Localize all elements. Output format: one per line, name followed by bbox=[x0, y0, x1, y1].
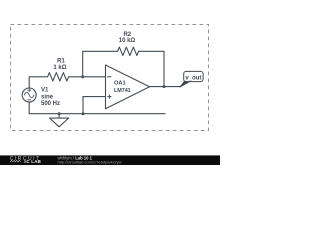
wire plus-input riser bbox=[83, 97, 106, 114]
resistor R1 bbox=[48, 73, 69, 81]
wire ground rail bbox=[29, 113, 165, 115]
svg-text:≡C LAB: ≡C LAB bbox=[24, 159, 41, 164]
junction output/feedback bbox=[163, 85, 166, 88]
op-amp plus input mark bbox=[108, 95, 111, 98]
wire feedback riser left bbox=[83, 51, 118, 77]
wire V1 top to R1 bbox=[29, 77, 47, 88]
voltage source V1 circle bbox=[22, 88, 36, 102]
V1 minus sign bbox=[28, 99, 31, 101]
node v_out flag box bbox=[184, 71, 203, 81]
V1 plus sign bbox=[28, 89, 31, 92]
svg-text:v_out: v_out bbox=[185, 75, 201, 81]
svg-text:10 kΩ: 10 kΩ bbox=[119, 38, 136, 44]
wire R2 to feedback riser right bbox=[139, 51, 164, 86]
svg-text:R1: R1 bbox=[57, 58, 65, 64]
node v_out flag pointer bbox=[180, 82, 190, 87]
footer logo squiggle bbox=[10, 160, 20, 162]
svg-text:http://circuitlab.com/c/7e6dpw: http://circuitlab.com/c/7e6dpw4x2yw bbox=[58, 160, 122, 165]
svg-text:500 Hz: 500 Hz bbox=[41, 101, 60, 107]
junction ground bbox=[58, 112, 61, 115]
wire op-amp output bbox=[150, 86, 181, 88]
op-amp minus input mark bbox=[108, 76, 111, 78]
V1 sine squiggle bbox=[24, 92, 34, 98]
junction R1/feedback bbox=[81, 75, 84, 78]
svg-text:V1: V1 bbox=[41, 87, 49, 93]
junction plus riser bbox=[82, 112, 85, 115]
resistor R2 bbox=[118, 47, 139, 55]
svg-text:sine: sine bbox=[41, 94, 54, 100]
svg-text:OA1: OA1 bbox=[114, 80, 126, 86]
wire R1 to op-amp minus input bbox=[69, 76, 106, 78]
op-amp OA1 triangle bbox=[106, 65, 150, 109]
schematic border (decorative) bbox=[11, 25, 209, 131]
svg-text:1 kΩ: 1 kΩ bbox=[53, 65, 66, 71]
footer bar bbox=[0, 155, 220, 165]
ground stem bbox=[58, 114, 60, 118]
ground symbol bbox=[50, 118, 69, 127]
wire V1 bottom bbox=[28, 102, 30, 114]
svg-text:LM741: LM741 bbox=[114, 88, 131, 94]
